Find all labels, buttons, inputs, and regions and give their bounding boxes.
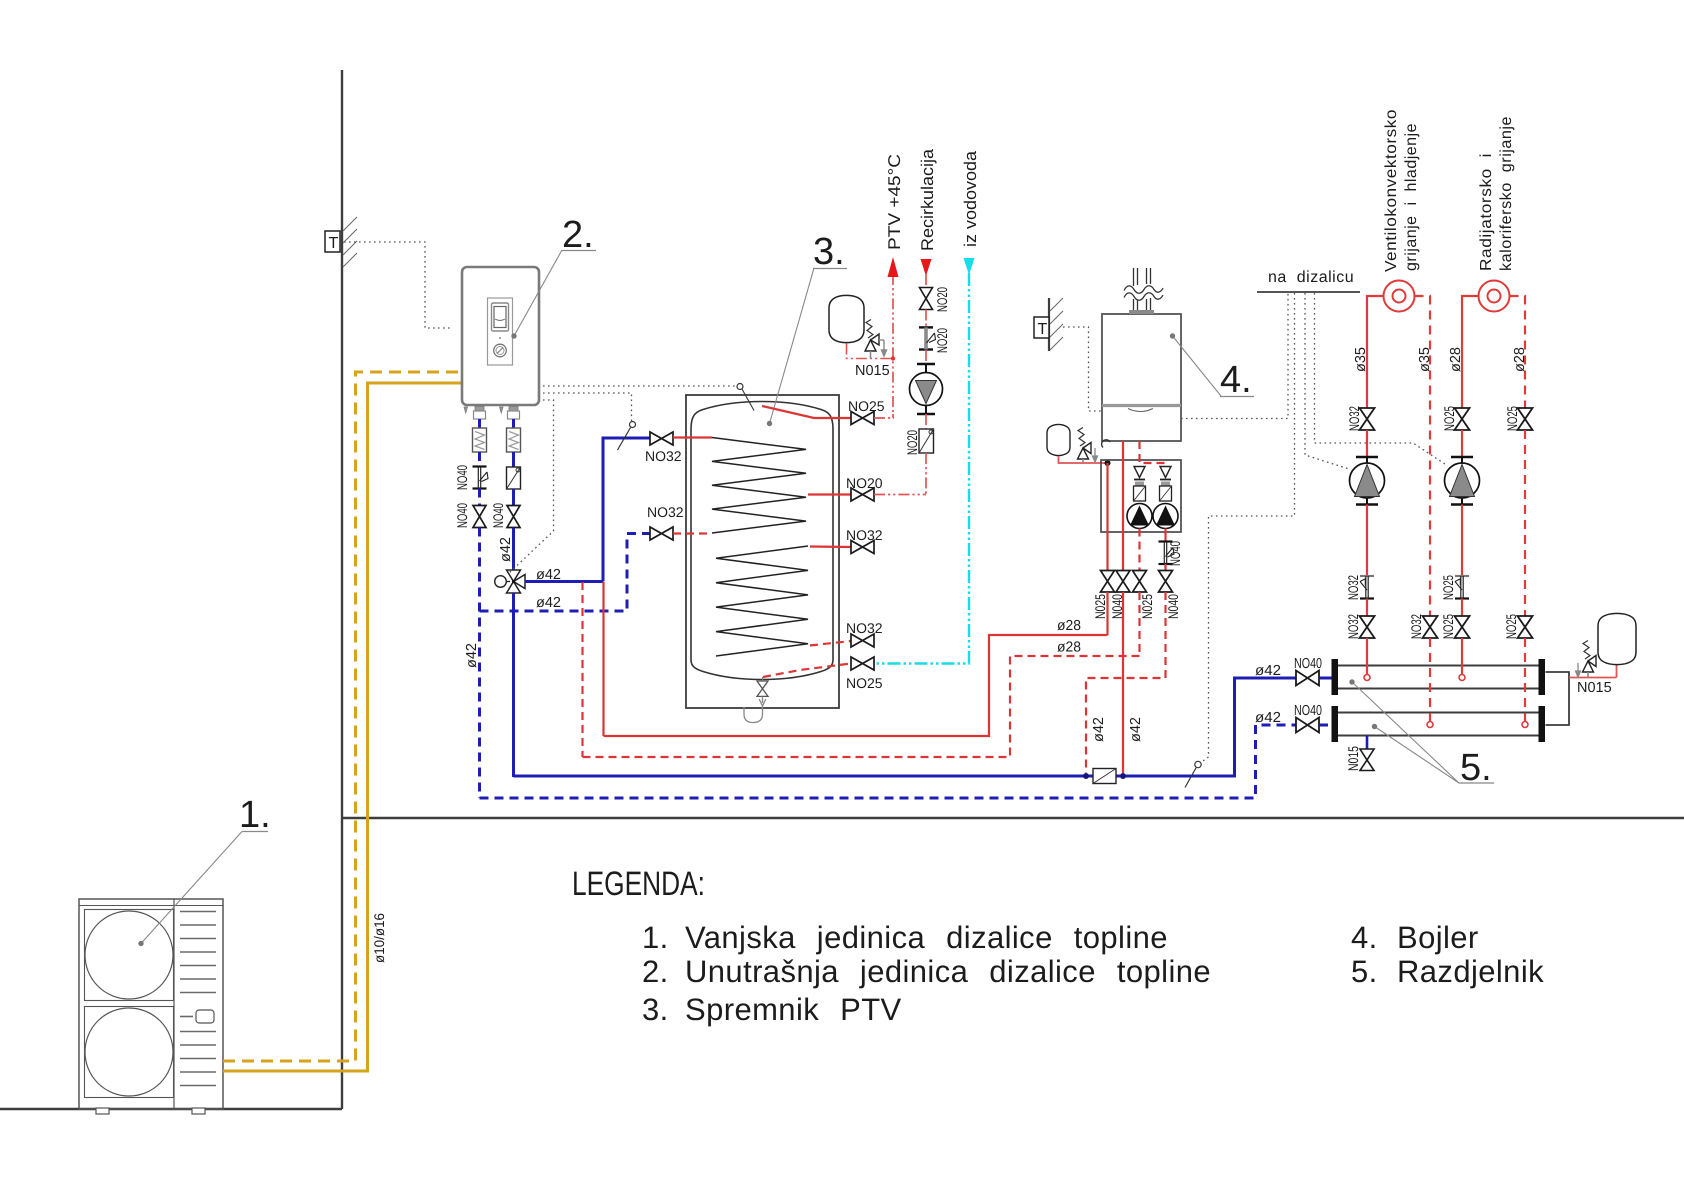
label 1. leader xyxy=(141,832,242,944)
wire xyxy=(1366,430,1368,457)
svg-text:NO25: NO25 xyxy=(1440,575,1456,600)
side panel divider xyxy=(173,899,175,1109)
svg-text:NO25: NO25 xyxy=(1503,614,1519,639)
supply pipe from unit (right, solid blue) xyxy=(512,419,515,428)
recirculation pump xyxy=(910,364,943,414)
boiler pump A xyxy=(1127,504,1152,529)
svg-text:N015: N015 xyxy=(1345,746,1361,771)
wire to node xyxy=(525,580,603,583)
manifold 5 upper header xyxy=(1337,666,1540,689)
valve N040 xyxy=(1159,571,1173,593)
drain valve N015 xyxy=(1360,749,1374,771)
svg-text:NO40: NO40 xyxy=(490,503,506,528)
valve NO25 supply2 xyxy=(1455,408,1470,430)
wire dashed down to elbow xyxy=(478,528,481,799)
tank port lower NO32 xyxy=(810,641,851,646)
svg-text:kalorifersko grijanje: kalorifersko grijanje xyxy=(1498,116,1515,271)
wire xyxy=(925,274,927,288)
boiler pump B xyxy=(1153,504,1178,529)
wire wall sensor to unit 2 xyxy=(344,242,452,328)
svg-text:T: T xyxy=(329,235,339,252)
node red return tee dashed xyxy=(581,582,583,757)
circuit symbol xyxy=(1384,281,1415,312)
svg-text:ø28: ø28 xyxy=(1512,347,1528,372)
wire B below box xyxy=(1164,529,1166,542)
tank pipe sensor xyxy=(630,422,636,428)
side grille xyxy=(180,912,216,1086)
svg-text:NO32: NO32 xyxy=(1345,614,1361,639)
refrigerant gas line (yellow dashed) xyxy=(223,372,461,1061)
junction xyxy=(891,356,895,360)
svg-text:T: T xyxy=(1038,321,1048,338)
valve NO32 xyxy=(1360,616,1375,638)
bottom fittings xyxy=(464,407,518,414)
knob xyxy=(494,344,507,357)
svg-text:NO25: NO25 xyxy=(848,398,885,414)
chimney xyxy=(1124,268,1163,311)
manifold lower header xyxy=(1337,713,1540,736)
manifold drain stub xyxy=(1366,736,1369,750)
boiler safety valve xyxy=(1078,428,1098,464)
svg-text:5.: 5. xyxy=(1351,954,1378,989)
tank port cold feed xyxy=(763,664,851,678)
svg-text:grijanje i hladjenje: grijanje i hladjenje xyxy=(1403,123,1420,271)
expansion vessel DHW xyxy=(829,295,864,342)
wall xyxy=(341,70,343,1109)
divider band xyxy=(1102,404,1181,407)
safety valve N015 xyxy=(865,320,887,359)
wire red dashed into coil xyxy=(673,532,712,534)
outdoor heat-pump unit 1 xyxy=(79,899,223,1109)
svg-text:N025: N025 xyxy=(1092,594,1108,619)
boiler 4 xyxy=(1102,314,1181,441)
svg-text:NO20: NO20 xyxy=(846,475,883,491)
node red supply tee xyxy=(602,582,604,736)
label 4. leader xyxy=(1173,336,1222,396)
svg-text:ø35: ø35 xyxy=(1353,347,1369,372)
tank port heating supply 2 xyxy=(810,545,851,548)
pump branch A check valve xyxy=(1134,467,1145,478)
wire xyxy=(478,452,481,466)
display xyxy=(492,303,509,331)
wire red return dashed xyxy=(583,656,1140,757)
manifold expansion vessel xyxy=(1598,613,1636,664)
wire xyxy=(874,417,894,419)
main blue return wire dashed xyxy=(480,725,1297,798)
balancing valve NO32 xyxy=(1360,576,1374,599)
main blue supply wire xyxy=(514,678,1297,776)
valve NO32 return from coil xyxy=(650,527,673,540)
svg-text:NO40: NO40 xyxy=(454,465,470,490)
junction boiler return xyxy=(1083,773,1089,779)
wire xyxy=(1366,505,1368,577)
valve NO40 xyxy=(507,506,520,528)
svg-text:4.: 4. xyxy=(1220,359,1252,401)
junction boiler supply xyxy=(1120,773,1126,779)
unit body xyxy=(79,899,223,1109)
wire boiler return o42 down xyxy=(1086,592,1166,773)
wire vessel xyxy=(1059,456,1106,463)
wire return top dashed xyxy=(1415,296,1431,616)
wire xyxy=(1461,505,1463,577)
valve NO25 xyxy=(1455,616,1470,638)
pump branch B check valve xyxy=(1160,467,1171,478)
svg-text:NO20: NO20 xyxy=(934,287,950,312)
wire xyxy=(512,452,515,467)
svg-text:NO32: NO32 xyxy=(647,504,684,520)
svg-text:NO25: NO25 xyxy=(1441,406,1457,431)
wire unit2 to 3-way actuator xyxy=(508,400,554,574)
valve NO40 supply manifold xyxy=(1296,671,1319,686)
svg-text:5.: 5. xyxy=(1460,747,1492,789)
pump branch A filter xyxy=(1134,486,1146,501)
check valve N020 xyxy=(919,327,936,349)
valve NO25 PTV xyxy=(851,412,874,425)
svg-text:N015: N015 xyxy=(1577,680,1612,696)
svg-text:ø28: ø28 xyxy=(1057,640,1081,656)
filter xyxy=(507,467,521,489)
svg-text:NO40: NO40 xyxy=(1294,656,1322,672)
wire xyxy=(925,350,927,364)
fan circle upper xyxy=(85,911,173,999)
heating pump 1 xyxy=(1350,457,1385,505)
svg-text:N015: N015 xyxy=(855,363,890,379)
wire na dizalicu to pipe sensor xyxy=(1202,293,1295,762)
svg-text:2.: 2. xyxy=(562,214,594,256)
svg-text:ø10/ø16: ø10/ø16 xyxy=(371,913,387,963)
svg-text:NO40: NO40 xyxy=(1294,703,1322,719)
valve NO20 xyxy=(851,488,874,501)
svg-text:ø28: ø28 xyxy=(1057,618,1081,634)
wire na dizalicu to pump1 xyxy=(1305,293,1349,469)
fan frame lower xyxy=(85,1007,174,1098)
indoor heat-pump unit 2 xyxy=(462,267,539,405)
tank port PTV out xyxy=(762,406,851,418)
drain spout xyxy=(744,696,766,722)
wire unit2 to pipe sensor xyxy=(543,393,632,421)
svg-text:NO32: NO32 xyxy=(1345,575,1361,600)
heating pump 2 xyxy=(1445,457,1480,505)
boiler pump group box xyxy=(1101,460,1181,532)
svg-text:Ventilokonvektorsko: Ventilokonvektorsko xyxy=(1383,109,1400,272)
svg-text:NO25: NO25 xyxy=(846,675,883,691)
pump branch B filter xyxy=(1160,486,1172,501)
label 3. leader xyxy=(770,268,815,424)
svg-text:3.: 3. xyxy=(813,231,845,273)
handle xyxy=(196,1010,214,1023)
return pipe from unit (left, dashed blue) xyxy=(478,419,481,428)
flex connector left xyxy=(473,428,487,452)
svg-text:LEGENDA:: LEGENDA: xyxy=(572,865,705,903)
svg-text:1.: 1. xyxy=(239,794,271,836)
iz vodovoda column xyxy=(964,258,975,275)
valve NO25 xyxy=(851,657,874,670)
filter on blue line xyxy=(1093,769,1116,784)
svg-text:Spremnik PTV: Spremnik PTV xyxy=(685,992,902,1027)
lower coil xyxy=(716,546,808,656)
wire boiler to na dizalicu xyxy=(1181,293,1288,419)
wire A below box xyxy=(1138,529,1140,571)
svg-text:Radijatorsko i: Radijatorsko i xyxy=(1478,153,1495,271)
svg-text:N040: N040 xyxy=(1165,594,1181,619)
svg-text:1.: 1. xyxy=(642,920,669,955)
valve NO32 supply to coil xyxy=(650,432,673,445)
svg-text:3.: 3. xyxy=(642,992,669,1027)
boiler return wire dashed xyxy=(1140,441,1166,463)
fan frame upper xyxy=(85,910,174,1001)
balancing valve NO25 xyxy=(1455,576,1469,599)
wire xyxy=(1461,599,1463,617)
wire to expansion vessel xyxy=(1569,677,1617,679)
svg-text:Recirkulacija: Recirkulacija xyxy=(918,148,937,251)
control wires (dotted) xyxy=(344,242,1445,762)
valve NO25 return2 lower xyxy=(1518,616,1533,638)
pipe sensor xyxy=(1185,767,1197,788)
svg-text:ø42: ø42 xyxy=(1255,663,1281,679)
valve NO32 xyxy=(851,541,874,554)
wire red into coil xyxy=(673,436,712,438)
indoor floor xyxy=(342,817,1684,819)
feet xyxy=(96,1108,109,1114)
DHW storage tank 3 xyxy=(686,395,839,708)
wire xyxy=(1366,599,1368,617)
valve NO32 return1 xyxy=(1423,616,1438,638)
svg-text:NO25: NO25 xyxy=(1504,406,1520,431)
header connection ports xyxy=(1364,675,1370,681)
wire into header xyxy=(1461,638,1463,674)
svg-text:NO20: NO20 xyxy=(934,328,950,353)
PTV arrow xyxy=(888,257,899,277)
wire xyxy=(478,489,481,506)
valve NO32 xyxy=(851,634,874,647)
junction xyxy=(1105,460,1111,466)
svg-text:Vanjska jedinica dizalice topl: Vanjska jedinica dizalice topline xyxy=(685,920,1168,955)
valve N020 xyxy=(920,288,933,310)
svg-text:NO20: NO20 xyxy=(904,430,920,455)
svg-text:ø42: ø42 xyxy=(536,595,561,611)
valve NO40 xyxy=(473,506,486,528)
wire xyxy=(874,494,926,496)
svg-text:ø42: ø42 xyxy=(498,537,514,562)
cold water wire xyxy=(874,273,969,664)
dashed return tee xyxy=(480,534,651,612)
refrigerant liquid line (yellow solid) xyxy=(223,383,461,1071)
wire supply top xyxy=(1462,296,1479,408)
wire below 3-way valve xyxy=(512,593,515,777)
boiler discharge curl xyxy=(1102,440,1110,448)
svg-text:NO40: NO40 xyxy=(1167,541,1183,566)
wire boiler valve1 to o28 supply xyxy=(1106,592,1108,635)
label 2. leader xyxy=(514,250,562,336)
valve N025 xyxy=(1133,571,1147,593)
wire return2 dashed xyxy=(1524,430,1526,616)
svg-text:Bojler: Bojler xyxy=(1397,920,1479,955)
wall hatch at sensor T1 xyxy=(343,217,357,267)
control panel xyxy=(488,298,513,365)
wire supply top xyxy=(1367,296,1384,408)
wire vessel to PTV line xyxy=(847,344,894,359)
upper coil xyxy=(712,438,806,534)
tank port recirculation xyxy=(808,493,851,495)
svg-text:NO32: NO32 xyxy=(1346,406,1362,431)
wire safety line down xyxy=(1106,463,1108,571)
svg-text:2.: 2. xyxy=(642,954,669,989)
outdoor sensor T1 box xyxy=(325,231,340,252)
check valve N040 xyxy=(1159,542,1175,565)
svg-text:4.: 4. xyxy=(1351,920,1378,955)
wire boiler supply o42 down xyxy=(1122,592,1124,773)
valve N040 xyxy=(1116,571,1130,593)
wire down to tank valve xyxy=(925,453,927,495)
wire red supply to boiler group xyxy=(604,635,1108,736)
safety valve N015 xyxy=(1576,641,1597,678)
wire xyxy=(512,489,515,505)
svg-text:NO32: NO32 xyxy=(645,448,682,464)
inner vessel xyxy=(691,402,833,680)
svg-text:ø42: ø42 xyxy=(1128,717,1144,742)
svg-text:NO25: NO25 xyxy=(1440,614,1456,639)
svg-text:ø42: ø42 xyxy=(464,643,480,668)
svg-text:NO32: NO32 xyxy=(846,527,883,543)
svg-text:ø42: ø42 xyxy=(1091,717,1107,742)
valve NO32 supply1 xyxy=(1360,408,1375,430)
header interconnect xyxy=(1546,672,1570,725)
svg-text:iz vodovoda: iz vodovoda xyxy=(961,150,980,247)
svg-text:NO32: NO32 xyxy=(1408,614,1424,639)
wire na dizalicu to pump2 xyxy=(1315,293,1446,464)
fan circle lower xyxy=(85,1008,173,1096)
label 5. leaders xyxy=(1352,682,1459,783)
wire return1 down xyxy=(1429,638,1431,721)
svg-text:PTV +45°C: PTV +45°C xyxy=(885,154,904,250)
boiler wall sensor T2 xyxy=(1048,298,1050,351)
valve N025 xyxy=(1101,571,1115,593)
Recirculation column xyxy=(921,259,932,276)
svg-text:ø42: ø42 xyxy=(1255,710,1281,726)
wire xyxy=(925,414,927,429)
flex connector right xyxy=(507,428,521,452)
wire node to tank valve xyxy=(603,438,650,582)
svg-text:NO40: NO40 xyxy=(454,503,470,528)
valve NO25 return2 xyxy=(1518,408,1533,430)
svg-text:N025: N025 xyxy=(1139,594,1155,619)
wire boiler valve3 to o28 return xyxy=(1138,592,1140,656)
wire xyxy=(512,528,515,571)
wire unit2 to tank sensor xyxy=(543,385,736,387)
svg-text:ø28: ø28 xyxy=(1448,347,1464,372)
boiler expansion vessel xyxy=(1047,424,1070,455)
svg-text:Razdjelnik: Razdjelnik xyxy=(1397,954,1544,989)
filter N020 xyxy=(919,429,934,453)
svg-text:ø42: ø42 xyxy=(536,567,561,583)
PTV +45C riser xyxy=(892,274,894,414)
wire xyxy=(925,310,927,328)
actuator xyxy=(495,576,507,588)
3-way mixing valve xyxy=(507,570,526,593)
check valve NO40 xyxy=(473,467,489,489)
svg-text:Unutrašnja jedinica dizalice t: Unutrašnja jedinica dizalice topline xyxy=(685,954,1211,989)
top strip line xyxy=(79,905,223,907)
wire xyxy=(1461,430,1463,457)
wire return2 down xyxy=(1524,638,1526,721)
wire return top dashed xyxy=(1510,296,1526,408)
boiler supply wire xyxy=(1122,441,1124,571)
svg-text:ø35: ø35 xyxy=(1417,347,1433,372)
wire into header xyxy=(1366,638,1368,674)
tank top sensor xyxy=(737,384,743,390)
svg-text:na dizalicu: na dizalicu xyxy=(1268,269,1354,286)
valve NO40 return manifold xyxy=(1296,718,1319,733)
outdoor ground xyxy=(0,1108,342,1110)
circuit symbol xyxy=(1479,281,1510,312)
svg-text:NO32: NO32 xyxy=(846,620,883,636)
tank drain valve xyxy=(757,681,768,696)
wire boiler sensor T2 xyxy=(1063,327,1101,411)
